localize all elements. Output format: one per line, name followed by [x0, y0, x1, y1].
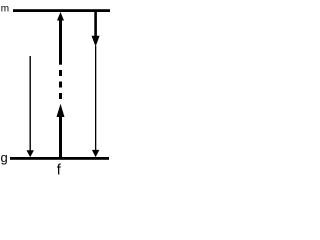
- middle dash 2: [59, 82, 62, 88]
- middle bold up-arrow upper shaft: [59, 20, 62, 65]
- level g line: [10, 157, 109, 160]
- left thin down-arrow shaft: [30, 56, 31, 151]
- right bottom arrow head: [92, 150, 99, 157]
- middle dash 1: [59, 70, 62, 76]
- left arrow head: [27, 150, 34, 157]
- middle dash 3: [59, 93, 62, 99]
- right thin continuation shaft: [95, 46, 96, 150]
- middle bold up-arrow lower shaft: [59, 117, 62, 158]
- svg-text:g: g: [1, 150, 8, 165]
- middle bold up-arrow upper head: [57, 12, 64, 21]
- right thick down-arrow shaft: [94, 12, 97, 37]
- right thick arrow head: [92, 36, 100, 47]
- svg-text:m: m: [1, 3, 9, 14]
- level m line: [13, 9, 110, 12]
- middle bold up-arrow lower head: [57, 104, 65, 117]
